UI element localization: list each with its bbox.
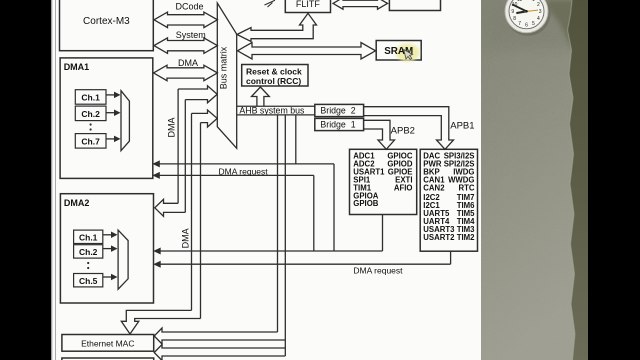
svg-text:RTC: RTC [458,184,474,193]
svg-text:DMA request: DMA request [353,266,403,276]
svg-text:FLITF: FLITF [296,0,321,9]
svg-text:Ethernet MAC: Ethernet MAC [81,339,134,349]
svg-text:6: 6 [525,23,528,29]
svg-text:Bus matrix: Bus matrix [219,46,229,89]
svg-text:DMA request: DMA request [219,166,269,176]
svg-text:TIM2: TIM2 [457,233,475,242]
svg-text:Ch.5: Ch.5 [79,276,98,286]
svg-text:control (RCC): control (RCC) [246,76,301,86]
svg-text:Ch.2: Ch.2 [81,109,100,119]
svg-text:Reset & clock: Reset & clock [246,67,302,77]
svg-text:Ch.7: Ch.7 [81,137,100,147]
svg-text:9: 9 [511,9,514,15]
svg-text:GPIOB: GPIOB [353,199,378,208]
svg-text:4: 4 [537,16,540,22]
svg-text:Bridge 2: Bridge 2 [320,106,355,116]
svg-text:3: 3 [539,9,542,15]
svg-text:Cortex-M3: Cortex-M3 [83,16,130,27]
svg-text:AFIO: AFIO [394,183,413,192]
svg-text:APB1: APB1 [450,121,474,132]
svg-text:12: 12 [524,0,530,1]
svg-text:5: 5 [532,21,535,27]
svg-text:8: 8 [513,16,516,22]
svg-text:DMA: DMA [178,58,198,68]
svg-text:DCode: DCode [175,2,203,12]
svg-text:Ch.1: Ch.1 [79,233,98,243]
svg-text:System: System [176,30,206,40]
svg-text:CAN2: CAN2 [423,184,445,193]
svg-text:Bridge 1: Bridge 1 [320,120,355,130]
svg-text:DMA: DMA [166,118,176,138]
svg-text:2: 2 [537,2,540,8]
svg-text:DMA2: DMA2 [64,198,90,208]
svg-text:1: 1 [532,0,535,3]
svg-text:DMA: DMA [180,228,190,248]
svg-text:Ch.1: Ch.1 [81,93,100,103]
svg-text:11: 11 [517,0,522,3]
svg-text:DMA1: DMA1 [64,62,90,72]
svg-text:APB2: APB2 [391,126,415,137]
svg-text:7: 7 [518,21,521,27]
svg-text:USART2: USART2 [423,233,455,242]
svg-text:AHB system bus: AHB system bus [239,106,305,116]
svg-text:Ch.2: Ch.2 [79,247,98,257]
